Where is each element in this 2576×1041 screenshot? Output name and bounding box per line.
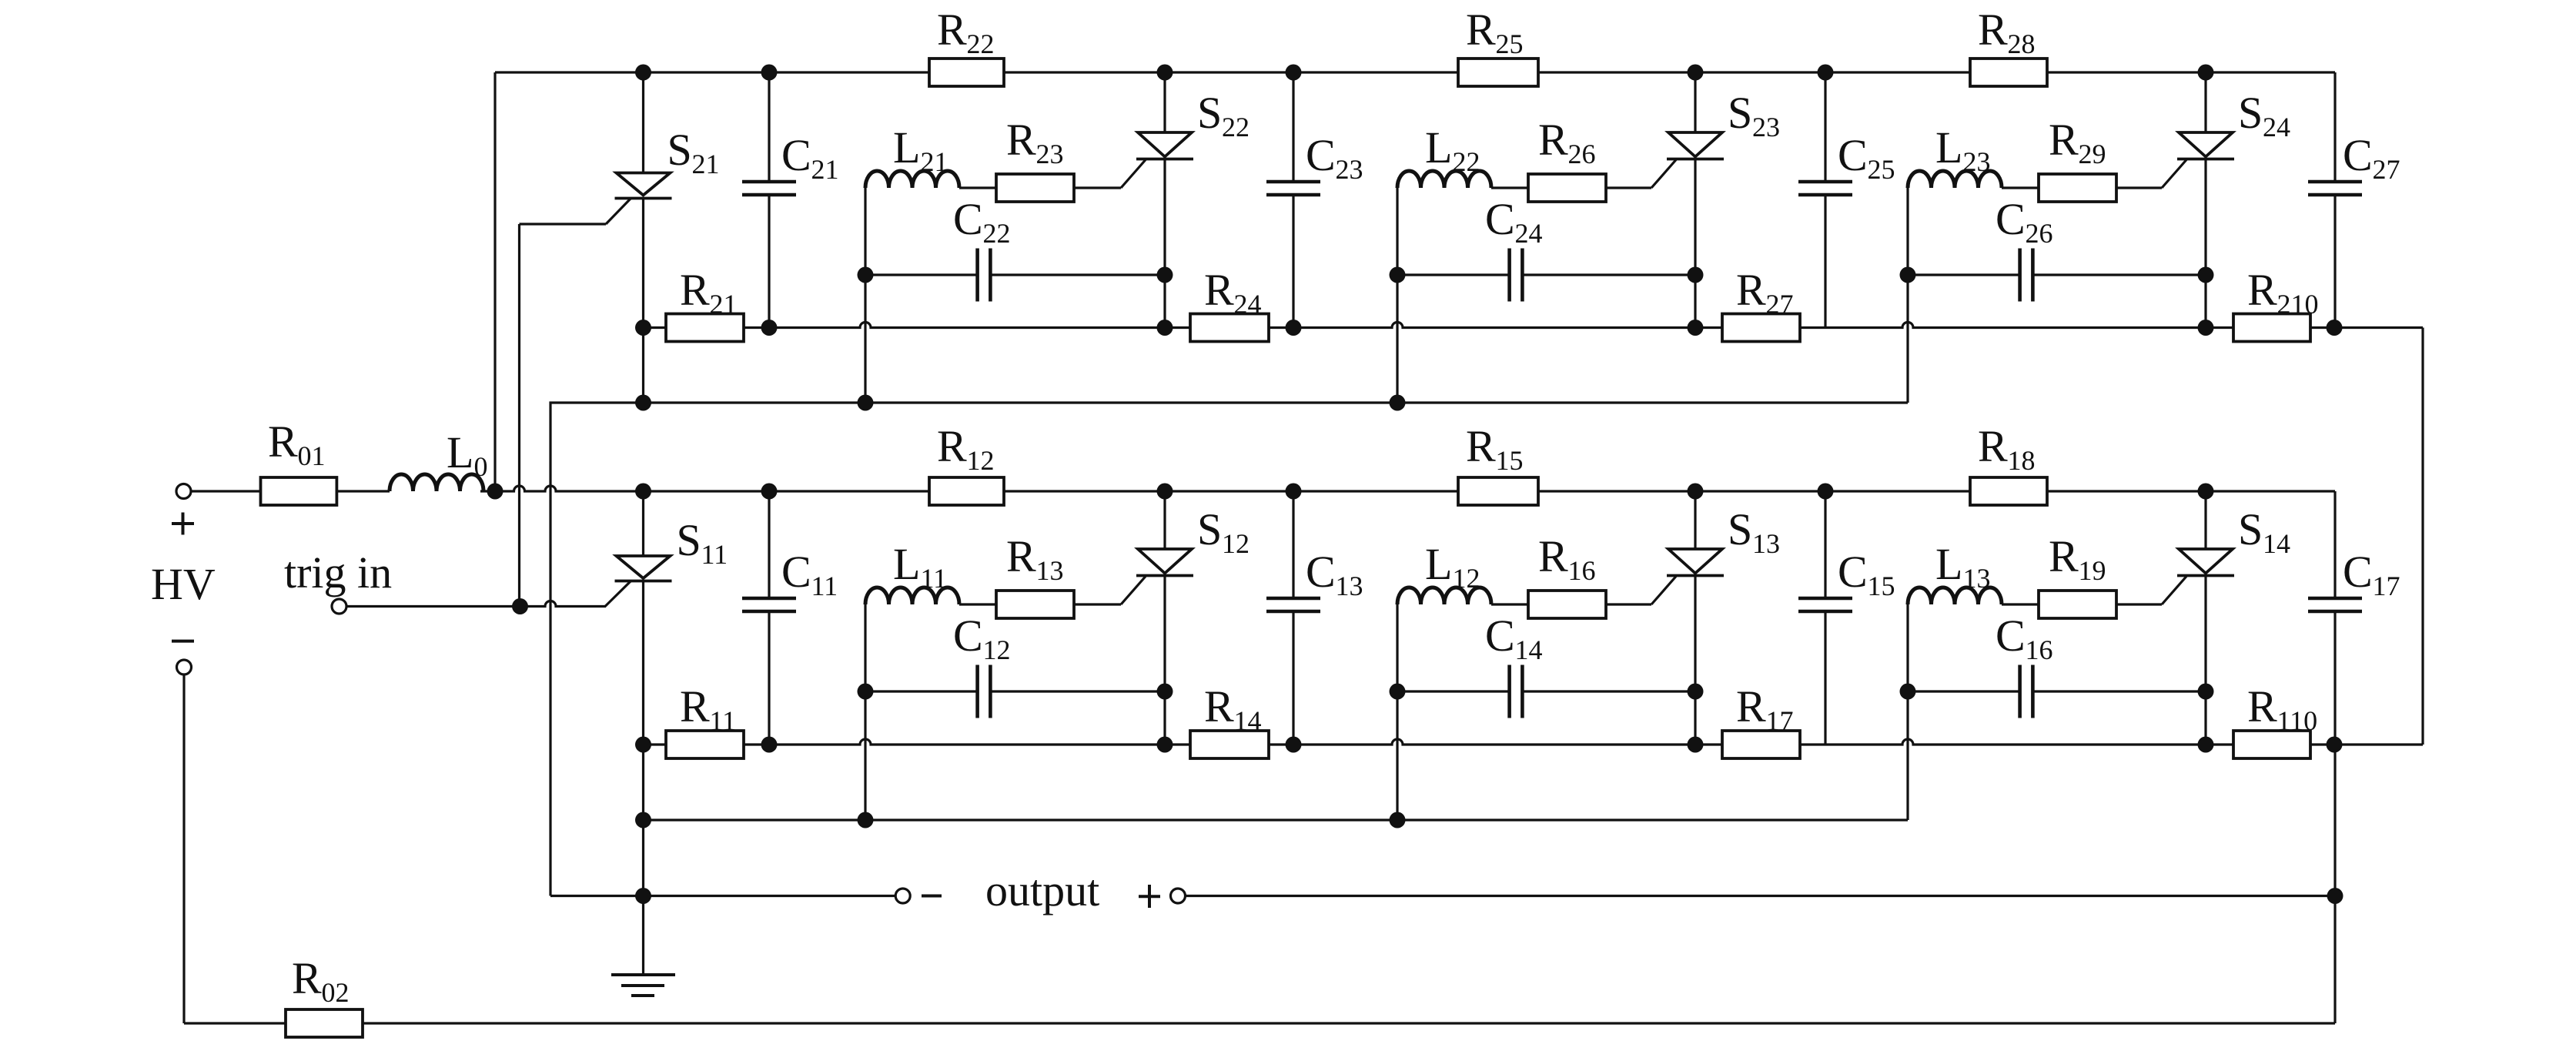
wire: L13 left vertical [1906,604,1909,820]
junction: C15 at main line [1818,484,1834,500]
inductor L0 [390,474,483,491]
junction: S11 anode at main line [635,484,651,500]
svg-text:C: C [1996,194,2026,244]
svg-text:13: 13 [1963,563,1991,594]
wire: bottom network lower bus [644,818,1909,821]
junction: S12 anode at main line [1157,484,1173,500]
resistor R24 [1190,314,1269,342]
svg-text:C: C [1485,611,1515,661]
capacitor C17 [2308,597,2362,601]
resistor R21 [666,314,744,342]
svg-text:S: S [2238,88,2263,138]
wire: L12 to R16 [1491,603,1528,605]
wire: C21 upper lead [768,72,770,182]
wire: HV minus to R02 [184,1022,286,1024]
svg-text:C: C [1996,611,2026,661]
wire: S22 cathode column [1163,159,1166,328]
svg-text:R: R [2049,531,2079,581]
svg-text:trig in: trig in [284,547,392,597]
svg-text:S: S [2238,504,2263,554]
terminal: HV plus [176,484,191,499]
resistor R19 [2039,591,2116,618]
svg-text:R: R [1538,531,1568,581]
resistor R25 [1458,59,1538,86]
svg-text:R: R [937,421,967,471]
wire: L11 left vertical [864,604,866,820]
junction: C11 at bottom rail [761,737,778,753]
wire: S14 anode lead [2204,491,2206,549]
wire: R19 to S14 gate [2116,603,2162,605]
svg-text:L: L [1425,122,1452,172]
junction: C13 at main line [1286,484,1302,500]
svg-text:L: L [893,539,920,589]
junction: C25 at top rail [1818,65,1834,81]
svg-text:16: 16 [2026,634,2053,665]
minus sign at output [922,895,942,898]
svg-text:C: C [2343,130,2373,180]
wire: HV minus lead down [182,675,185,1023]
wire: R13 to S12 gate [1074,603,1121,605]
wire: R16 to S13 gate [1606,603,1651,605]
wire: S21 gate diagonal [606,199,631,224]
svg-text:14: 14 [1234,705,1262,736]
svg-text:L: L [1935,122,1962,172]
resistor R01 [261,477,337,505]
svg-text:C: C [781,130,811,180]
junction: S22 cathode at bottom rail [1157,320,1173,336]
svg-text:C: C [1838,130,1868,180]
svg-text:R: R [1204,265,1234,315]
wire: S21 anode lead [642,72,644,173]
wire: C24 left lead (mid wire) [1397,273,1510,276]
svg-text:26: 26 [2026,218,2053,249]
thyristor S11 [617,556,671,578]
wire: S21 cathode column to bottom rail and bus [642,199,644,403]
wire: R23 to S22 gate [1074,186,1121,189]
junction: C23 at top rail [1286,65,1302,81]
wire: L21 to R23 [959,186,996,189]
resistor R16 [1528,591,1606,618]
svg-text:24: 24 [1515,218,1543,249]
inductor L13 [1908,587,2002,604]
svg-text:11: 11 [811,571,838,601]
resistor R110 [2233,731,2310,758]
capacitor C16 [2018,665,2022,718]
wire: top network bottom rail to right-side link [2334,326,2423,329]
junction: S14 cathode at bottom rail [2198,737,2214,753]
capacitor C23 [1266,180,1320,184]
inductor L11 [865,587,959,604]
capacitor C12 [975,665,979,718]
wire: R01 to L0 [336,490,390,492]
junction: L11 column at lower bus [858,812,874,828]
svg-text:C: C [1485,194,1515,244]
thyristor S23 [1668,132,1722,157]
wire: output minus line [550,895,895,897]
capacitor C22 [975,249,979,302]
wire: S22 anode lead [1163,72,1166,132]
wire: S12 gate diagonal [1121,577,1146,605]
svg-text:L: L [1425,539,1452,589]
resistor R02 [286,1009,363,1037]
inductor L12 [1397,587,1491,604]
svg-text:18: 18 [2008,445,2036,476]
resistor R13 [996,591,1074,618]
wire: S23 gate diagonal [1651,160,1676,189]
svg-text:C: C [953,194,983,244]
junction: C22 left tap [858,267,874,283]
wire: L22 left vertical (through mid tap to bus) [1396,188,1398,403]
svg-text:R: R [1978,5,2008,55]
svg-text:R: R [1204,681,1234,731]
wire: L23 left vertical to bus corner [1906,188,1909,403]
svg-text:R: R [2247,265,2277,315]
junction: L21 column at lower bus [858,395,874,411]
junction: C24 left tap [1390,267,1406,283]
svg-text:11: 11 [921,563,948,594]
wire: C14 right lead (mid wire) [1522,690,1695,692]
wire: C15 lower lead [1824,611,1826,745]
wire: C25 upper lead [1824,72,1826,182]
junction: C16 left tap [1900,684,1916,700]
thyristor S14 [2179,549,2233,574]
wire: L12 left vertical [1396,604,1398,820]
junction: L22 column at lower bus [1390,395,1406,411]
terminal: trig in [332,599,346,614]
svg-text:110: 110 [2277,705,2318,736]
junction: C24 right tap at S23 [1688,267,1704,283]
svg-text:22: 22 [1453,146,1480,177]
wire: bottom network bottom rail (cathode bus) [644,739,2335,745]
svg-text:13: 13 [1036,555,1064,586]
svg-text:L: L [1935,539,1962,589]
junction: S11 column at output minus line [635,888,651,904]
svg-text:11: 11 [710,705,737,736]
inductor L23 [1908,171,2002,188]
wire: C25 lower lead [1824,195,1826,328]
svg-text:S: S [1728,88,1752,138]
junction: S13 anode at main line [1688,484,1704,500]
junction: R210 to C27 node [2327,320,2343,336]
svg-text:S: S [667,125,692,175]
wire: L0 to input junction node [480,490,495,492]
junction: C12 left tap [858,684,874,700]
junction: S23 anode at top rail [1688,65,1704,81]
wire: L13 to R19 [2002,603,2039,605]
svg-text:12: 12 [1222,528,1250,559]
wire: L21 left vertical (through mid tap to bus) [864,188,866,403]
svg-text:210: 210 [2277,289,2319,320]
wire: C16 left lead (mid wire) [1908,690,2020,692]
wire: L11 to R13 [959,603,996,605]
svg-text:C: C [953,611,983,661]
svg-text:23: 23 [1336,154,1363,185]
resistor R210 [2233,314,2310,342]
wire: C11 lower lead [768,611,770,745]
svg-text:S: S [1728,504,1752,554]
minus sign at HV [172,640,194,643]
capacitor C21 [742,180,796,184]
wire: C12 right lead (mid wire) [990,690,1165,692]
junction: output plus at right riser [2327,888,2343,904]
wire: C22 right lead (mid wire) [990,273,1165,276]
wire: top network top rail (anode bus) [495,71,2335,73]
svg-text:12: 12 [967,445,995,476]
resistor R11 [666,731,744,758]
svg-text:S: S [1197,504,1222,554]
svg-text:13: 13 [1336,571,1363,601]
svg-text:21: 21 [692,149,720,179]
capacitor C26 [2018,249,2022,302]
svg-text:24: 24 [1234,289,1262,320]
junction: R110 to C17 node [2327,737,2343,753]
svg-text:02: 02 [322,977,350,1008]
wire: S13 cathode column [1694,576,1696,745]
wire: input junction riser to top network rail [493,72,496,491]
svg-text:R: R [1466,421,1496,471]
thyristor S22 [1138,132,1192,157]
wire: C27 upper lead [2333,72,2336,182]
svg-text:22: 22 [967,28,995,59]
svg-text:S: S [1197,88,1222,138]
svg-text:R: R [1736,265,1766,315]
junction: C26 left tap [1900,267,1916,283]
wire: S22 gate diagonal [1121,160,1146,189]
wire: S11 gate diagonal [605,581,631,607]
wire: C17 lower lead [2333,611,2336,745]
svg-text:17: 17 [1766,705,1794,736]
svg-text:R: R [1006,531,1036,581]
svg-text:26: 26 [1568,139,1596,169]
thyristor S13 [1668,549,1722,574]
svg-text:C: C [2343,547,2373,597]
wire: S21 gate stub [520,223,607,225]
junction: C21 at bottom rail [761,320,778,336]
wire: R29 to S24 gate [2116,186,2162,189]
junction: S11 column at lower bus [635,812,651,828]
wire: S11 anode lead [642,491,644,556]
svg-text:R: R [2247,681,2277,731]
svg-text:R: R [1978,421,2008,471]
junction: S23 cathode at bottom rail [1688,320,1704,336]
wire: top network lower bus (output return) [550,403,1908,896]
svg-text:23: 23 [1036,139,1064,169]
junction: C26 right tap at S24 [2198,267,2214,283]
capacitor C13 [1266,597,1320,601]
svg-text:0: 0 [474,451,488,482]
wire: S24 anode lead [2204,72,2206,132]
plus sign at output [1139,895,1160,898]
terminal: output minus [895,889,910,903]
wire: C23 lower lead [1292,195,1294,328]
wire: C12 left lead (mid wire) [865,690,978,692]
wire: C11 upper lead [768,491,770,598]
svg-text:S: S [677,515,701,565]
wire: C16 right lead (mid wire) [2032,690,2206,692]
wire: bottom rail corner down to C17 [2333,491,2336,598]
junction: C21 at top rail [761,65,778,81]
wire: S13 anode lead [1694,491,1696,549]
svg-text:R: R [1466,5,1496,55]
wire: C26 right lead (mid wire) [2032,273,2206,276]
resistor R18 [1970,477,2047,505]
wire: R26 to S23 gate [1606,186,1651,189]
junction: C22 right tap at S22 [1157,267,1173,283]
svg-text:11: 11 [701,539,728,570]
svg-text:R: R [937,5,967,55]
wire: S14 gate diagonal [2162,577,2186,605]
wire: trig vertical to S21 gate [518,224,520,607]
wire: output plus line [1186,895,2335,897]
wire: S14 cathode column [2204,576,2206,745]
svg-text:27: 27 [2373,154,2400,185]
wire: C21 lower lead [768,195,770,328]
svg-text:27: 27 [1766,289,1794,320]
svg-text:13: 13 [1752,528,1780,559]
junction: trig vertical at trig line [512,598,528,614]
svg-text:15: 15 [1868,571,1895,601]
inductor L21 [865,171,959,188]
wire: R02 to bottom return line [363,1022,2335,1024]
svg-text:12: 12 [1453,563,1480,594]
svg-text:15: 15 [1496,445,1524,476]
junction: S21 column at lower bus [635,395,651,411]
svg-text:28: 28 [2008,28,2036,59]
wire: C26 left lead (mid wire) [1908,273,2020,276]
junction: L12 column at lower bus [1390,812,1406,828]
svg-text:22: 22 [983,218,1011,249]
terminal: HV minus [177,660,192,674]
wire: S13 gate diagonal [1651,577,1676,605]
svg-text:23: 23 [1963,146,1991,177]
wire: C15 upper lead [1824,491,1826,598]
junction: S14 anode at main line [2198,484,2214,500]
junction: C14 right tap at S13 [1688,684,1704,700]
resistor R12 [929,477,1004,505]
svg-text:output: output [985,865,1099,915]
svg-text:16: 16 [1568,555,1596,586]
svg-text:R: R [1736,681,1766,731]
svg-text:19: 19 [2079,555,2106,586]
wire: C23 upper lead [1292,72,1294,182]
svg-text:R: R [268,417,298,467]
junction: input node after L0 [487,484,503,500]
junction: S22 anode at top rail [1157,65,1173,81]
wire: right-side series link vertical [2421,328,2424,745]
svg-text:14: 14 [2263,528,2290,559]
resistor R14 [1190,731,1269,758]
plus sign at HV input [172,522,194,525]
capacitor C24 [1507,249,1511,302]
junction: C23 at bottom rail [1286,320,1302,336]
svg-text:R: R [680,681,710,731]
wire: S24 gate diagonal [2162,160,2186,189]
svg-text:17: 17 [2373,571,2400,601]
resistor R26 [1528,174,1606,202]
wire: top network bottom rail (cathode bus) [644,323,2335,328]
junction: C16 right tap at S14 [2198,684,2214,700]
wire: main line / bottom network top rail [495,486,2335,491]
svg-text:25: 25 [1868,154,1895,185]
wire: C13 upper lead [1292,491,1294,598]
junction: C13 at bottom rail [1286,737,1302,753]
svg-text:25: 25 [1496,28,1524,59]
svg-text:23: 23 [1752,112,1780,142]
svg-text:L: L [893,122,920,172]
svg-text:C: C [1306,130,1336,180]
resistor R28 [1970,59,2047,86]
inductor L22 [1397,171,1491,188]
capacitor C27 [2308,180,2362,184]
svg-text:R: R [1006,115,1036,165]
thyristor S21 [617,173,671,196]
resistor R27 [1722,314,1800,342]
wire: L22 to R26 [1491,186,1528,189]
wire: S23 cathode column [1694,159,1696,328]
svg-text:R: R [1538,115,1568,165]
wire: S12 cathode column [1163,576,1166,745]
svg-text:21: 21 [710,289,738,320]
wire: output plus down to bottom return [2333,896,2336,1024]
wire: C24 right lead (mid wire) [1522,273,1695,276]
wire: S12 anode lead [1163,491,1166,549]
resistor R17 [1722,731,1800,758]
wire: L23 to R29 [2002,186,2039,189]
svg-text:C: C [1306,547,1336,597]
wire: S23 anode lead [1694,72,1696,132]
capacitor C15 [1798,597,1852,601]
svg-text:C: C [1838,547,1868,597]
junction: S24 cathode at bottom rail [2198,320,2214,336]
junction: S12 cathode at bottom rail [1157,737,1173,753]
wire: S11 cathode column to ground [642,581,644,976]
svg-text:29: 29 [2079,139,2106,169]
svg-text:C: C [781,547,811,597]
capacitor C11 [742,597,796,601]
svg-text:21: 21 [921,146,948,177]
resistor R22 [929,59,1004,86]
wire: HV + terminal to R01 [191,490,261,492]
svg-text:12: 12 [983,634,1011,665]
junction: S21 anode at top rail [635,65,651,81]
wire: R110 node down to output plus [2333,745,2336,896]
svg-text:R: R [292,953,322,1003]
svg-text:R: R [680,265,710,315]
wire: C14 left lead (mid wire) [1397,690,1510,692]
junction: S13 cathode at bottom rail [1688,737,1704,753]
thyristor S24 [2179,132,2233,157]
svg-text:HV: HV [151,559,216,609]
terminal: output plus [1171,889,1186,903]
svg-text:24: 24 [2263,112,2290,142]
svg-text:L: L [447,427,473,477]
thyristor S12 [1138,549,1192,574]
junction: S11 cathode at bottom rail [635,737,651,753]
junction: C12 right tap at S12 [1157,684,1173,700]
capacitor C14 [1507,665,1511,718]
svg-text:21: 21 [811,154,839,185]
capacitor C25 [1798,180,1852,184]
wire: C27 lower lead [2333,195,2336,328]
svg-text:R: R [2049,115,2079,165]
resistor R29 [2039,174,2116,202]
wire: C22 left lead (mid wire) [865,273,978,276]
ground symbol [611,973,675,976]
svg-text:22: 22 [1222,112,1250,142]
junction: C11 at main line [761,484,778,500]
wire: S24 cathode column [2204,159,2206,328]
junction: S24 anode at top rail [2198,65,2214,81]
